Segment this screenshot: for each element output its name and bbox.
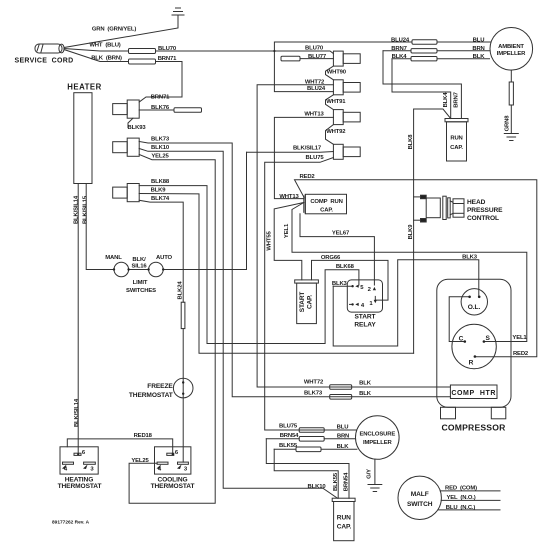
svg-text:BLK4: BLK4: [392, 54, 408, 60]
svg-text:SWITCHES: SWITCHES: [126, 288, 156, 294]
svg-text:IMPELLER: IMPELLER: [497, 51, 526, 57]
svg-text:BLU (N.C.): BLU (N.C.): [446, 505, 476, 511]
svg-text:89177262 Rev. A: 89177262 Rev. A: [52, 520, 90, 526]
svg-text:PRESSURE: PRESSURE: [467, 207, 503, 214]
svg-text:START: START: [299, 292, 306, 313]
svg-text:BLK/SIL17: BLK/SIL17: [293, 146, 322, 152]
svg-text:CAP.: CAP.: [320, 207, 333, 213]
svg-text:THERMOSTAT: THERMOSTAT: [58, 483, 102, 490]
svg-text:BLK: BLK: [359, 391, 372, 397]
svg-text:4: 4: [64, 466, 68, 472]
svg-text:RED2: RED2: [513, 351, 529, 357]
svg-text:WHT13: WHT13: [304, 112, 324, 118]
svg-text:6: 6: [82, 450, 86, 456]
svg-text:THERMOSTAT: THERMOSTAT: [151, 483, 195, 490]
svg-text:BLK4: BLK4: [443, 92, 449, 108]
svg-text:AUTO: AUTO: [156, 255, 173, 261]
svg-text:BLK10: BLK10: [308, 484, 327, 490]
svg-text:GRN8: GRN8: [504, 115, 510, 132]
svg-text:SIL16: SIL16: [132, 263, 148, 269]
svg-text:BLU70: BLU70: [305, 46, 324, 52]
svg-text:BLK3: BLK3: [332, 281, 348, 287]
svg-text:1: 1: [369, 301, 373, 307]
svg-text:COMP RUN: COMP RUN: [310, 199, 342, 205]
svg-text:AMBIENT: AMBIENT: [498, 44, 524, 50]
svg-text:BRN54: BRN54: [280, 433, 299, 439]
svg-text:BLK73: BLK73: [304, 390, 323, 396]
svg-text:BLK9: BLK9: [408, 224, 414, 240]
svg-text:BLK55: BLK55: [279, 443, 298, 449]
svg-text:BLK76: BLK76: [151, 105, 170, 111]
svg-text:START: START: [355, 313, 376, 320]
svg-text:GRN (GRN/YEL): GRN (GRN/YEL): [92, 27, 137, 33]
svg-text:BLU24: BLU24: [391, 38, 410, 44]
svg-text:WHT72: WHT72: [304, 380, 324, 386]
svg-text:CAP.: CAP.: [450, 145, 463, 151]
svg-text:WHT (BLU): WHT (BLU): [89, 43, 120, 49]
svg-text:BLK10: BLK10: [151, 145, 170, 151]
svg-text:4: 4: [361, 303, 365, 309]
svg-text:O.L.: O.L.: [468, 304, 481, 311]
svg-text:6: 6: [175, 450, 179, 456]
svg-text:HEAD: HEAD: [467, 199, 486, 206]
svg-text:RED (COM): RED (COM): [445, 485, 477, 491]
svg-text:ORG66: ORG66: [321, 255, 341, 261]
svg-text:5: 5: [360, 285, 364, 291]
svg-text:YEL25: YEL25: [131, 458, 149, 464]
svg-text:BLK3: BLK3: [462, 255, 478, 261]
svg-text:IMPELLER: IMPELLER: [363, 440, 392, 446]
svg-text:BRN7: BRN7: [391, 46, 407, 52]
svg-text:YEL1: YEL1: [512, 335, 527, 341]
svg-text:BLK/SIL14: BLK/SIL14: [74, 195, 80, 224]
svg-text:BLK93: BLK93: [128, 125, 147, 131]
svg-text:BRN71: BRN71: [158, 56, 177, 62]
svg-text:BLK: BLK: [359, 381, 372, 387]
svg-text:WHT55: WHT55: [266, 231, 272, 251]
svg-text:BLU: BLU: [337, 425, 349, 431]
svg-text:HEATER: HEATER: [67, 83, 101, 92]
svg-text:BLK: BLK: [473, 54, 486, 60]
svg-text:BLK9: BLK9: [151, 188, 167, 194]
svg-text:3: 3: [90, 466, 94, 472]
svg-text:BLK73: BLK73: [151, 137, 170, 143]
svg-text:RUN: RUN: [337, 515, 351, 522]
svg-text:S: S: [485, 335, 490, 342]
svg-text:BRN54: BRN54: [343, 472, 349, 491]
svg-text:BLK/SIL14: BLK/SIL14: [74, 398, 80, 427]
svg-text:SWITCH: SWITCH: [407, 501, 433, 508]
svg-text:BLK55: BLK55: [333, 472, 339, 491]
svg-text:MANL: MANL: [105, 255, 122, 261]
svg-text:LIMIT: LIMIT: [133, 280, 148, 286]
svg-text:BLU77: BLU77: [308, 54, 327, 60]
svg-text:THERMOSTAT: THERMOSTAT: [129, 392, 173, 399]
svg-text:4: 4: [158, 466, 162, 472]
svg-text:BLK/: BLK/: [132, 257, 146, 263]
svg-text:WHT92: WHT92: [326, 129, 346, 135]
svg-text:WHT91: WHT91: [326, 99, 346, 105]
svg-text:COMPRESSOR: COMPRESSOR: [441, 423, 506, 433]
svg-text:BLK74: BLK74: [151, 196, 170, 202]
svg-text:2: 2: [368, 287, 372, 293]
svg-text:RED18: RED18: [134, 433, 153, 439]
svg-text:BRN: BRN: [337, 434, 349, 440]
svg-text:BLU75: BLU75: [279, 424, 298, 430]
svg-text:BLK24: BLK24: [178, 281, 184, 300]
svg-text:3: 3: [184, 466, 188, 472]
svg-text:RELAY: RELAY: [354, 321, 376, 328]
svg-text:MALF: MALF: [411, 491, 429, 498]
svg-text:BLU24: BLU24: [307, 86, 326, 92]
svg-text:SERVICE CORD: SERVICE CORD: [14, 58, 73, 65]
svg-text:R: R: [469, 359, 474, 366]
svg-text:BLK: BLK: [337, 444, 350, 450]
svg-text:ENCLOSURE: ENCLOSURE: [359, 432, 395, 438]
svg-text:WHT13: WHT13: [279, 194, 299, 200]
svg-text:COMP HTR: COMP HTR: [451, 390, 496, 397]
svg-text:BLK88: BLK88: [151, 179, 170, 185]
svg-text:YEL67: YEL67: [332, 231, 350, 237]
svg-text:YEL25: YEL25: [151, 154, 169, 160]
svg-text:BRN7: BRN7: [453, 91, 459, 107]
svg-text:G/Y: G/Y: [366, 469, 372, 479]
svg-text:WHT72: WHT72: [305, 79, 325, 85]
svg-text:BRN71: BRN71: [151, 94, 170, 100]
svg-text:BLU: BLU: [473, 38, 485, 44]
svg-text:BLK8: BLK8: [408, 134, 414, 150]
svg-text:BLU75: BLU75: [306, 155, 325, 161]
svg-text:BLU70: BLU70: [158, 46, 177, 52]
svg-text:WHT90: WHT90: [327, 69, 347, 75]
svg-text:RED2: RED2: [299, 174, 315, 180]
svg-text:YEL1: YEL1: [284, 223, 290, 238]
svg-text:C: C: [459, 336, 464, 343]
svg-text:YEL (N.O.): YEL (N.O.): [446, 495, 475, 501]
svg-text:BLK (BRN): BLK (BRN): [91, 56, 122, 62]
svg-text:CONTROL: CONTROL: [467, 215, 499, 222]
svg-text:BRN: BRN: [472, 46, 484, 52]
svg-text:BLK68: BLK68: [336, 264, 355, 270]
svg-text:BLK/SIL15: BLK/SIL15: [83, 195, 89, 224]
svg-text:FREEZE: FREEZE: [147, 383, 173, 390]
svg-text:CAP.: CAP.: [307, 295, 314, 309]
svg-text:CAP.: CAP.: [337, 524, 352, 531]
svg-text:RUN: RUN: [450, 136, 462, 142]
